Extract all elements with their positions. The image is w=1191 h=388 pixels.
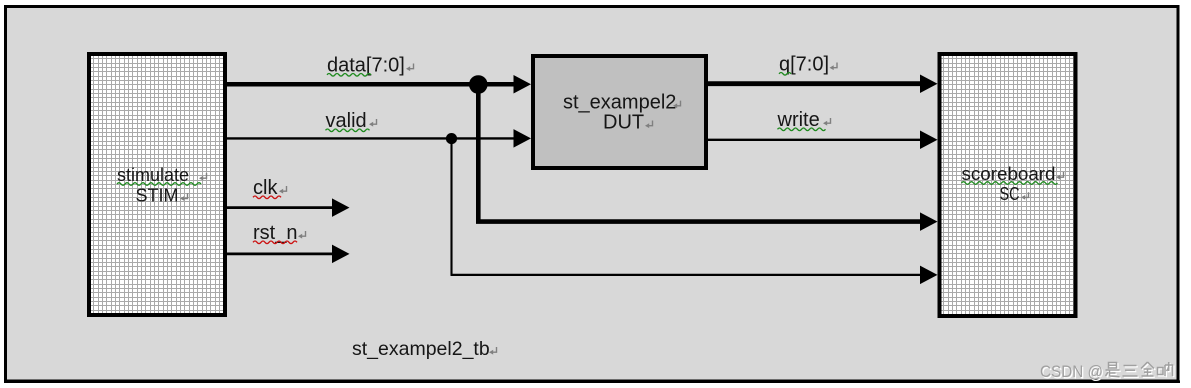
spellcheck squiggle data — [327, 74, 371, 77]
block DUT (st_exampel2) — [533, 56, 706, 168]
spellcheck squiggle clk — [253, 196, 281, 199]
svg-text:stimulate: stimulate — [117, 165, 189, 185]
junction data node — [469, 75, 488, 94]
wire data branch vertical — [476, 84, 481, 222]
junction valid node — [446, 133, 457, 144]
watermark CSDN — [1041, 363, 1174, 382]
wire data branch to SC — [476, 212, 938, 231]
spellcheck squiggle rst_n — [253, 241, 297, 244]
svg-text:rst_n: rst_n — [253, 222, 297, 244]
wire write DUT->SC — [708, 131, 938, 150]
svg-text:CSDN @: CSDN @ — [1040, 362, 1103, 381]
svg-text:clk: clk — [253, 177, 278, 199]
svg-text:st_exampel2_tb: st_exampel2_tb — [352, 338, 490, 360]
spellcheck squiggle valid — [326, 129, 370, 132]
wire data STIM->DUT — [227, 75, 531, 94]
wire rst_n — [227, 245, 350, 264]
svg-text:scoreboard: scoreboard — [962, 164, 1056, 184]
svg-text:data[7:0]: data[7:0] — [327, 55, 405, 77]
svg-text:st_exampel2: st_exampel2 — [563, 92, 676, 114]
svg-text:q[7:0]: q[7:0] — [779, 54, 829, 76]
svg-text:SC: SC — [1000, 184, 1020, 204]
wire q DUT->SC — [708, 74, 938, 93]
svg-text:write: write — [777, 109, 820, 131]
wire valid branch vertical — [450, 139, 452, 275]
wire clk — [227, 198, 350, 217]
svg-text:DUT: DUT — [603, 112, 644, 134]
spellcheck squiggle q — [779, 73, 791, 76]
spellcheck squiggle write — [778, 128, 826, 131]
block SC (scoreboard) — [940, 54, 1076, 316]
wire valid branch to SC — [451, 266, 938, 285]
svg-text:STIM: STIM — [136, 185, 179, 205]
wire valid STIM->DUT — [227, 129, 531, 148]
block STIM (stimulate) — [89, 54, 225, 315]
